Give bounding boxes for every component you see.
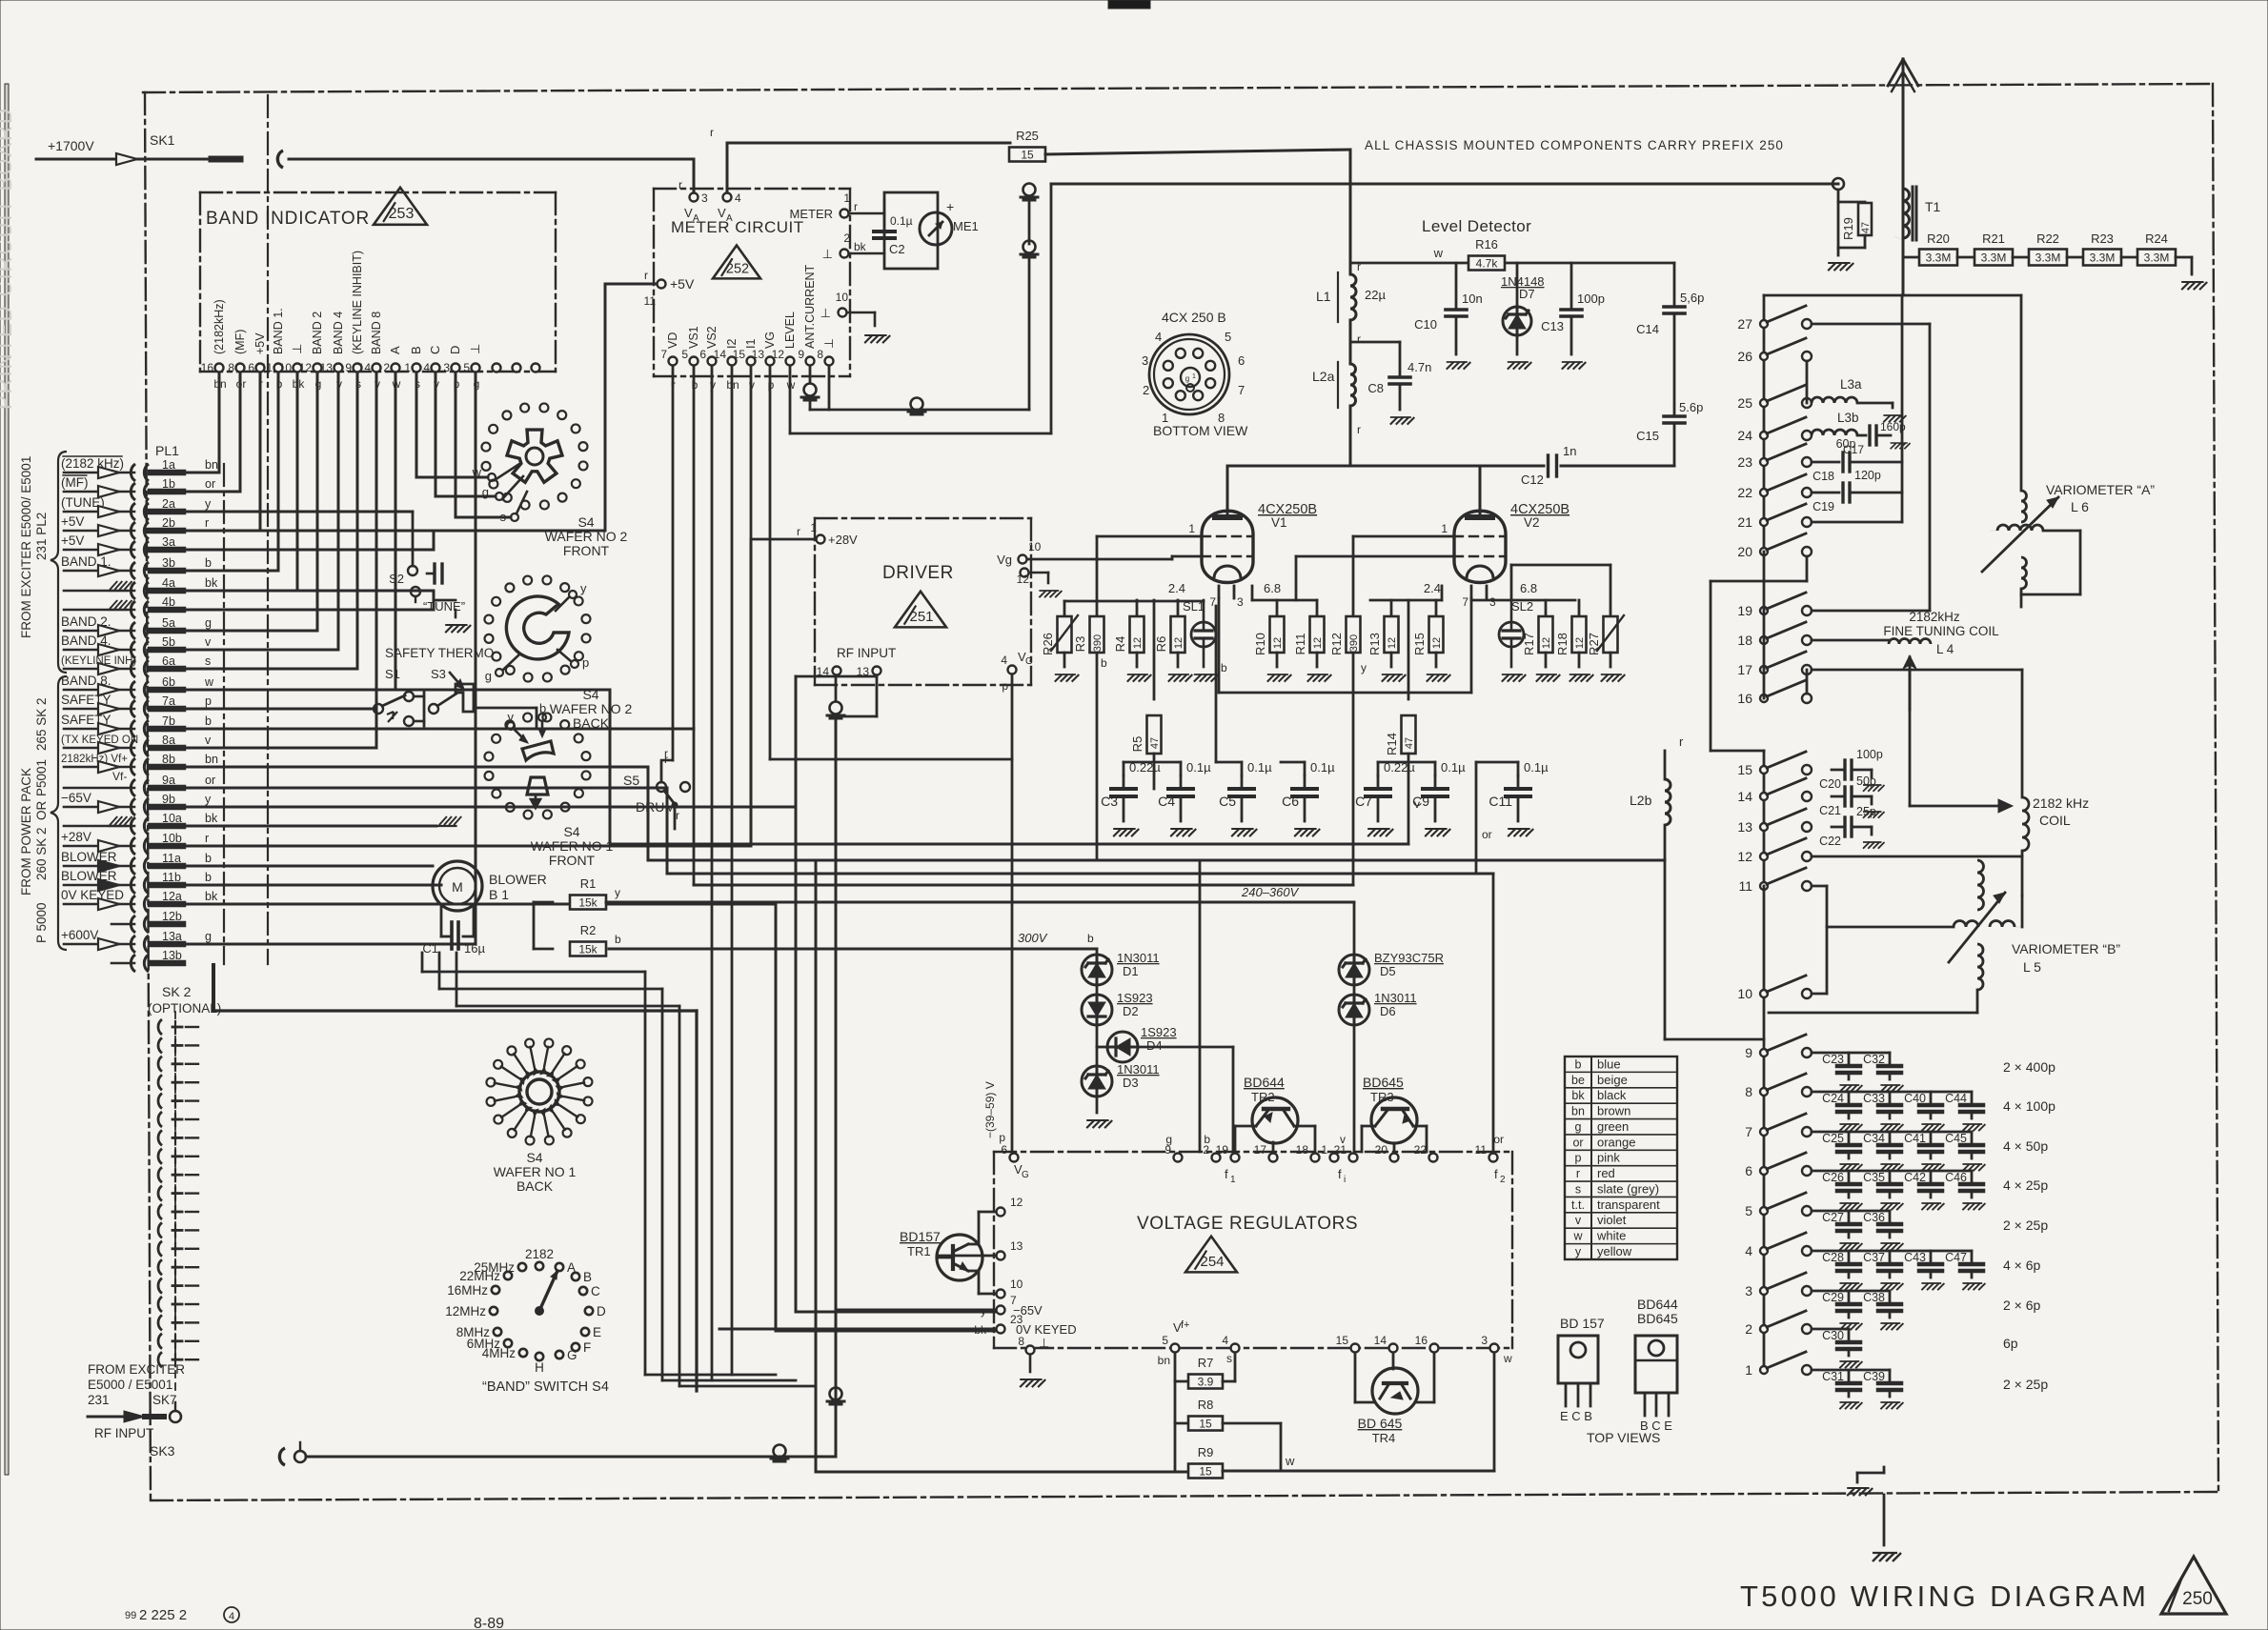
- svg-text:R7: R7: [1198, 1356, 1214, 1370]
- svg-text:2182kHz) Vf+: 2182kHz) Vf+: [61, 754, 128, 765]
- svg-text:be: be: [1571, 1074, 1585, 1087]
- svg-text:13b: 13b: [162, 949, 182, 962]
- svg-text:5a: 5a: [162, 616, 175, 630]
- svg-text:0V KEYED: 0V KEYED: [1016, 1322, 1077, 1337]
- ground symbol on PL1 row: [109, 582, 132, 591]
- svg-text:r: r: [205, 516, 209, 530]
- svg-text:7b: 7b: [162, 714, 175, 728]
- diode D5 BZY93C75R: [1353, 903, 1356, 955]
- svg-text:7: 7: [1745, 1124, 1752, 1139]
- capacitor C32: [1889, 1053, 1892, 1066]
- svg-text:25p: 25p: [1856, 805, 1876, 818]
- wire 300V b feed: [609, 948, 1097, 951]
- svg-text:r: r: [644, 269, 648, 282]
- svg-text:4CX250B: 4CX250B: [1510, 502, 1569, 517]
- svg-text:orange: orange: [1597, 1135, 1635, 1149]
- svg-text:WAFER NO 2: WAFER NO 2: [550, 701, 633, 716]
- variometer B: [2021, 856, 2024, 895]
- svg-text:7: 7: [1462, 595, 1468, 609]
- svg-text:25MHz: 25MHz: [474, 1260, 515, 1275]
- wire RF bottom bus to R9: [816, 1471, 1188, 1473]
- svg-text:6.8: 6.8: [1264, 581, 1281, 595]
- resistor R24 3.3M: [2137, 250, 2176, 266]
- svg-text:BAND 4: BAND 4: [332, 312, 345, 354]
- svg-text:⊥: ⊥: [290, 344, 304, 354]
- svg-text:R19: R19: [1841, 217, 1855, 240]
- svg-text:L 4: L 4: [1936, 642, 1954, 656]
- svg-text:r: r: [854, 200, 858, 213]
- svg-text:v: v: [1340, 1133, 1346, 1146]
- svg-text:S1: S1: [385, 667, 400, 681]
- svg-text:3.3M: 3.3M: [2090, 252, 2116, 265]
- wire R16 output bus: [1506, 262, 1674, 265]
- brace FROM EXCITER group: [51, 452, 67, 673]
- svg-text:L3a: L3a: [1840, 377, 1862, 392]
- svg-text:R13: R13: [1367, 633, 1382, 655]
- inductor L4: [1812, 639, 1889, 642]
- svg-text:12a: 12a: [162, 890, 182, 903]
- svg-text:16: 16: [201, 361, 214, 374]
- svg-text:C39: C39: [1863, 1370, 1885, 1383]
- svg-text:(OPTIONAL): (OPTIONAL): [148, 1001, 221, 1016]
- capacitor C35: [1889, 1171, 1892, 1184]
- svg-text:⊥: ⊥: [820, 306, 831, 320]
- wire D6 to pin 1/21: [1353, 1025, 1356, 1152]
- svg-text:w: w: [204, 675, 214, 689]
- svg-text:2: 2: [1745, 1321, 1752, 1337]
- capacitor C36: [1889, 1211, 1892, 1224]
- svg-text:F: F: [583, 1340, 591, 1355]
- block VOLTAGE REGULATORS 254: [994, 1151, 1512, 1153]
- wire antenna column down: [1902, 184, 1905, 295]
- switch S2 TUNE: [408, 566, 417, 575]
- svg-text:RF INPUT: RF INPUT: [837, 646, 896, 660]
- resistor R26 varistor: [1063, 601, 1066, 616]
- svg-text:C29: C29: [1822, 1291, 1844, 1304]
- svg-text:C45: C45: [1945, 1132, 1967, 1145]
- svg-text:C46: C46: [1945, 1171, 1967, 1184]
- svg-text:8: 8: [228, 361, 234, 374]
- svg-text:ALL CHASSIS MOUNTED COMPONE: ALL CHASSIS MOUNTED COMPONENTS CARRY PRE…: [1365, 138, 1784, 152]
- svg-text:BD645: BD645: [1363, 1075, 1404, 1090]
- driver pin 4 VG: [1008, 666, 1017, 674]
- svg-text:y: y: [1575, 1245, 1582, 1258]
- svg-text:3.3M: 3.3M: [1981, 252, 2007, 265]
- svg-text:9: 9: [345, 361, 352, 374]
- meter circuit pin 11 +5V: [658, 280, 666, 289]
- wire C5 tie: [1241, 762, 1244, 775]
- svg-text:C15: C15: [1636, 429, 1659, 443]
- svg-text:(2182 kHz): (2182 kHz): [61, 456, 124, 471]
- svg-text:10: 10: [279, 361, 293, 374]
- svg-text:1a: 1a: [162, 458, 175, 472]
- svg-text:r: r: [676, 809, 679, 822]
- svg-text:V2: V2: [1524, 515, 1540, 530]
- wire SK2 bundle heavy line: [212, 965, 215, 1011]
- svg-text:(2182kHz): (2182kHz): [213, 299, 226, 354]
- svg-text:12MHz: 12MHz: [445, 1304, 486, 1318]
- svg-text:1N3011: 1N3011: [1374, 991, 1417, 1005]
- svg-text:6a: 6a: [162, 654, 175, 668]
- diode D4 1S923: [1096, 1025, 1099, 1047]
- svg-text:2.4: 2.4: [1424, 581, 1441, 595]
- svg-text:1: 1: [1745, 1362, 1752, 1378]
- capacitor C21 50p: [1832, 795, 1845, 798]
- svg-text:2182kHz: 2182kHz: [1909, 610, 1960, 624]
- switch S6 contact 26: [1760, 352, 1768, 360]
- svg-text:P5001: P5001: [34, 759, 49, 796]
- capacitor C42: [1930, 1171, 1933, 1184]
- transformer T1: [1903, 189, 1910, 238]
- svg-text:FINE TUNING COIL: FINE TUNING COIL: [1883, 624, 1999, 638]
- inductor L2b: [1664, 751, 1667, 779]
- svg-text:SK 2: SK 2: [162, 984, 192, 999]
- svg-text:3: 3: [1745, 1283, 1752, 1298]
- svg-text:C41: C41: [1904, 1132, 1926, 1145]
- svg-text:9: 9: [798, 348, 804, 361]
- rotary wafer S4 WAFER NO 1 BACK: [584, 1097, 593, 1105]
- capacitor C19 120p: [1812, 492, 1839, 494]
- svg-text:21: 21: [1737, 514, 1752, 530]
- svg-text:7a: 7a: [162, 694, 175, 708]
- variometer A: [2020, 295, 2023, 491]
- regulator bottom pins: [1171, 1344, 1180, 1353]
- svg-text:5: 5: [1745, 1203, 1752, 1218]
- wire w/g feeders to wafer front: [415, 372, 418, 477]
- wire bank bus rows 9-1: [1763, 1053, 1766, 1370]
- svg-text:D: D: [448, 346, 462, 354]
- svg-text:8: 8: [1018, 1335, 1024, 1348]
- svg-text:D7: D7: [1519, 287, 1535, 301]
- svg-text:VOLTAGE REGULATORS: VOLTAGE REGULATORS: [1137, 1214, 1358, 1234]
- svg-text:R6: R6: [1154, 636, 1168, 653]
- connector PL1 pin 1b: [131, 483, 135, 500]
- svg-text:yellow: yellow: [1597, 1244, 1632, 1258]
- svg-text:BAND 1.: BAND 1.: [272, 308, 285, 354]
- wire 0V KEYED feed: [719, 1328, 996, 1331]
- legend colour code table: [1565, 1056, 1677, 1259]
- svg-text:E: E: [593, 1325, 601, 1339]
- resistor R21 3.3M: [1974, 250, 2013, 266]
- svg-text:r: r: [1357, 332, 1361, 346]
- svg-text:C3: C3: [1101, 794, 1118, 809]
- svg-text:TOP VIEWS: TOP VIEWS: [1587, 1430, 1660, 1445]
- svg-text:16µ: 16µ: [464, 941, 485, 956]
- connector PL1 pin 3b: [131, 562, 135, 579]
- meter circuit pin 2: [840, 250, 849, 258]
- svg-text:4 × 100p: 4 × 100p: [2003, 1098, 2055, 1114]
- resistor R22 3.3M: [2029, 250, 2067, 266]
- svg-text:g: g: [205, 930, 212, 943]
- ground under 4b join: [455, 610, 457, 617]
- svg-text:blue: blue: [1597, 1056, 1621, 1071]
- ground L3a: [1883, 415, 1906, 422]
- capacitor C9 0.1µ: [1434, 775, 1437, 789]
- wire D4 to f1: [1138, 1046, 1233, 1049]
- boundary dash line SK2: [174, 1012, 176, 1391]
- svg-text:8: 8: [1745, 1084, 1752, 1099]
- svg-text:15: 15: [1199, 1465, 1212, 1479]
- tube V1 4CX250B: [1202, 511, 1253, 582]
- svg-text:+28V: +28V: [828, 533, 858, 547]
- svg-text:v: v: [1575, 1214, 1582, 1227]
- wire contact 21 tie: [1812, 521, 1902, 524]
- svg-text:R14: R14: [1385, 733, 1399, 755]
- ground under D3: [1086, 1120, 1112, 1128]
- svg-text:0.1µ: 0.1µ: [890, 214, 913, 228]
- svg-text:LEVEL: LEVEL: [783, 312, 797, 349]
- svg-text:g: g: [1165, 1133, 1172, 1146]
- band indicator pin row: [215, 364, 224, 372]
- svg-text:violet: violet: [1597, 1213, 1627, 1227]
- TR2 leads: [1234, 1126, 1237, 1152]
- svg-text:s: s: [500, 510, 507, 524]
- svg-text:−65V: −65V: [1013, 1303, 1043, 1318]
- svg-text:+5V: +5V: [61, 514, 84, 529]
- svg-text:3a: 3a: [162, 535, 175, 549]
- svg-text:C1: C1: [422, 941, 438, 956]
- svg-text:+: +: [946, 199, 954, 214]
- switch contact 10: [1763, 886, 1766, 1053]
- wire grid2 V2: [1296, 555, 1454, 558]
- svg-text:2182: 2182: [525, 1247, 554, 1261]
- bead on RF line: [774, 1445, 786, 1458]
- brace FROM POWER PACK group: [51, 676, 67, 950]
- switch S6 contact 6 capacitor row: [1760, 1167, 1768, 1175]
- svg-text:bk: bk: [854, 240, 867, 253]
- capacitor C1 16u: [440, 906, 443, 936]
- wire 12a bk to bundle: [183, 903, 441, 906]
- svg-text:i: i: [1344, 1175, 1346, 1185]
- svg-text:1N3011: 1N3011: [1117, 951, 1160, 965]
- svg-text:12: 12: [1431, 637, 1443, 649]
- svg-text:BAND 2: BAND 2: [311, 312, 324, 354]
- connector PL1 pin 4b: [131, 601, 135, 618]
- capacitor C45: [1971, 1132, 1974, 1145]
- wire tie column x1996: [1901, 295, 1904, 522]
- svg-text:1S923: 1S923: [1141, 1025, 1177, 1039]
- capacitor C2 0.1u: [849, 212, 884, 215]
- svg-text:2 × 25p: 2 × 25p: [2003, 1377, 2048, 1392]
- svg-text:A: A: [726, 213, 733, 224]
- capacitor C7 0.22µ: [1377, 775, 1380, 789]
- capacitor C40: [1930, 1092, 1933, 1105]
- driver pin 12: [1021, 569, 1029, 577]
- svg-text:w: w: [1503, 1352, 1512, 1365]
- svg-text:y: y: [580, 581, 587, 595]
- svg-text:R22: R22: [2036, 231, 2059, 246]
- tube V2 4CX250B: [1454, 511, 1506, 582]
- svg-text:47: 47: [1149, 737, 1161, 749]
- wire p to regulator VG riser: [769, 384, 772, 759]
- svg-text:p: p: [1002, 679, 1008, 693]
- svg-text:7: 7: [1238, 383, 1245, 397]
- svg-text:M: M: [452, 879, 463, 895]
- svg-text:300V: 300V: [1018, 931, 1048, 945]
- scan artifact top tab: [1108, 0, 1150, 9]
- coil 2182kHz: [2021, 670, 2024, 797]
- svg-text:C37: C37: [1863, 1251, 1885, 1264]
- resistor R18 12: [1578, 600, 1581, 616]
- svg-text:2 × 400p: 2 × 400p: [2003, 1059, 2055, 1075]
- wire -65V feed: [838, 1309, 996, 1312]
- svg-text:red: red: [1597, 1166, 1615, 1180]
- svg-text:A: A: [693, 213, 699, 224]
- capacitor C10 10n: [1455, 263, 1458, 310]
- switch S6 contact 12: [1760, 853, 1768, 860]
- svg-text:26: 26: [1737, 349, 1752, 364]
- svg-text:b: b: [205, 871, 212, 884]
- svg-text:5: 5: [1162, 1334, 1168, 1347]
- svg-text:9a: 9a: [162, 774, 175, 787]
- svg-text:⊥: ⊥: [822, 247, 833, 261]
- diode D3 1N3011: [1096, 1047, 1099, 1066]
- diode D1 1N3011: [1096, 949, 1099, 955]
- connector PL1 pin 9b: [131, 798, 135, 815]
- svg-text:0.1µ: 0.1µ: [1441, 760, 1466, 775]
- wire R25 to antenna column: [1045, 150, 1350, 154]
- switch S6 contact 7 capacitor row: [1760, 1128, 1768, 1136]
- inductor L3b: [1812, 430, 1857, 435]
- svg-text:231 PL2: 231 PL2: [34, 513, 49, 560]
- wire meter b y bn verticals: [693, 384, 696, 885]
- connector PL1 pin 4a: [131, 582, 135, 599]
- wire meter pin feeders down: [672, 366, 675, 384]
- wire 6b w to 886 bus: [183, 689, 610, 692]
- regulator left pins: [997, 1208, 1005, 1217]
- connector PL1 pin 7a: [131, 700, 135, 717]
- svg-text:BOTTOM VIEW: BOTTOM VIEW: [1153, 423, 1248, 438]
- svg-text:C40: C40: [1904, 1092, 1926, 1105]
- svg-text:10: 10: [1737, 986, 1752, 1001]
- svg-text:12: 12: [299, 361, 313, 374]
- wire 929 bus: [694, 884, 1353, 887]
- svg-text:L1: L1: [1316, 289, 1331, 304]
- svg-text:TR4: TR4: [1372, 1431, 1396, 1445]
- svg-text:16MHz: 16MHz: [447, 1283, 488, 1298]
- svg-text:SAFETY THERMO: SAFETY THERMO: [385, 646, 494, 660]
- svg-text:390: 390: [1348, 634, 1360, 652]
- svg-text:C24: C24: [1822, 1092, 1844, 1105]
- capacitor C33: [1889, 1092, 1892, 1105]
- svg-text:22: 22: [1414, 1143, 1428, 1157]
- wire 917 or bus: [667, 873, 1476, 875]
- switch S6 contact 16: [1760, 694, 1768, 702]
- svg-text:V: V: [684, 206, 693, 220]
- svg-text:slate (grey): slate (grey): [1597, 1181, 1659, 1196]
- connector PL1 pin 10b: [131, 837, 135, 855]
- svg-text:FROM EXCITER: FROM EXCITER: [88, 1362, 185, 1377]
- svg-text:R8: R8: [1198, 1398, 1214, 1412]
- svg-text:BD 645: BD 645: [1358, 1416, 1403, 1431]
- svg-text:12: 12: [1574, 637, 1586, 649]
- triangle 250: [2161, 1557, 2226, 1614]
- wire contact 19 line: [1812, 610, 1930, 613]
- svg-text:13a: 13a: [162, 930, 182, 943]
- svg-text:S4: S4: [577, 514, 594, 530]
- capacitor C28: [1848, 1251, 1851, 1264]
- switch S6 contact 27: [1760, 320, 1768, 328]
- meter circuit pin 1 METER: [840, 210, 849, 218]
- svg-text:10a: 10a: [162, 812, 182, 825]
- svg-text:SL1: SL1: [1183, 599, 1205, 614]
- svg-text:0.1µ: 0.1µ: [1310, 760, 1335, 775]
- svg-text:12: 12: [1132, 637, 1144, 649]
- svg-text:4: 4: [735, 191, 741, 205]
- svg-text:4b: 4b: [162, 595, 175, 609]
- svg-text:Vg: Vg: [997, 553, 1012, 567]
- svg-text:C13: C13: [1541, 319, 1564, 333]
- capacitor C15 5.6p: [1673, 313, 1676, 416]
- svg-text:p: p: [582, 655, 589, 670]
- connector PL1 pin 13b: [131, 955, 135, 972]
- svg-text:4 × 25p: 4 × 25p: [2003, 1177, 2048, 1193]
- svg-text:+5V: +5V: [670, 276, 695, 292]
- wire +28V row to driver: [750, 384, 753, 539]
- resistor R23 3.3M: [2083, 250, 2121, 266]
- ground below frame bottom: [1883, 1495, 1886, 1545]
- svg-text:f: f: [1494, 1167, 1498, 1181]
- svg-text:r: r: [1679, 735, 1684, 749]
- svg-text:C31: C31: [1822, 1370, 1844, 1383]
- rotary wafer S4 WAFER NO 2 FRONT: [579, 461, 588, 470]
- svg-text:C22: C22: [1819, 835, 1841, 848]
- svg-text:C12: C12: [1521, 473, 1544, 487]
- resistor R1 15k: [534, 901, 553, 904]
- svg-text:4 × 6p: 4 × 6p: [2003, 1258, 2041, 1273]
- resistor R3 390: [1096, 536, 1099, 616]
- svg-text:4CX 250 B: 4CX 250 B: [1162, 310, 1226, 325]
- wire grid V2 to R12: [1353, 535, 1454, 538]
- svg-text:g: g: [1575, 1120, 1582, 1134]
- wire down-bus x856 to R9 line: [815, 860, 818, 1472]
- svg-text:C21: C21: [1819, 804, 1841, 817]
- svg-text:12: 12: [1312, 637, 1324, 649]
- connector PL1 pin 5b: [131, 641, 135, 658]
- svg-text:47: 47: [1404, 737, 1415, 749]
- switch S6 contact 17: [1760, 666, 1768, 674]
- svg-text:L 6: L 6: [2071, 499, 2089, 514]
- svg-text:TR1: TR1: [907, 1244, 931, 1258]
- connector PL1 pin 8a: [131, 739, 135, 756]
- svg-text:C: C: [428, 346, 442, 354]
- svg-text:3.3M: 3.3M: [2144, 252, 2170, 265]
- svg-text:4.7k: 4.7k: [1476, 257, 1499, 271]
- svg-text:C18: C18: [1812, 470, 1834, 483]
- svg-text:w: w: [1433, 246, 1444, 260]
- wire 7a to S1: [183, 708, 374, 711]
- svg-text:265 SK 2: 265 SK 2: [34, 697, 49, 751]
- svg-text:FRONT: FRONT: [563, 543, 610, 558]
- svg-text:C25: C25: [1822, 1132, 1844, 1145]
- svg-text:R17: R17: [1522, 633, 1536, 655]
- svg-text:r: r: [664, 747, 668, 760]
- svg-text:C20: C20: [1819, 777, 1841, 791]
- svg-text:bk: bk: [205, 576, 218, 590]
- svg-text:B: B: [409, 346, 423, 354]
- svg-text:R11: R11: [1293, 634, 1307, 655]
- capacitor C34: [1889, 1132, 1892, 1145]
- wire grid V1 to R3: [1097, 535, 1202, 538]
- switch S6 contact 23: [1760, 458, 1768, 466]
- wire 20/19 jump: [1763, 552, 1766, 581]
- svg-text:C28: C28: [1822, 1251, 1844, 1264]
- svg-text:12: 12: [1017, 573, 1030, 586]
- svg-text:G: G: [567, 1348, 577, 1362]
- wire 2a TUNE row: [183, 511, 413, 513]
- svg-text:L3b: L3b: [1837, 411, 1859, 425]
- svg-text:COIL: COIL: [2039, 813, 2071, 828]
